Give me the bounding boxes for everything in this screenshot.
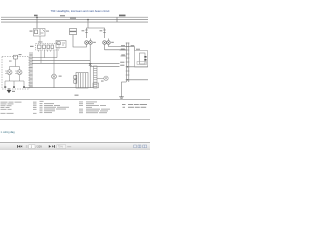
svg-text:/ 209: / 209	[36, 145, 42, 149]
svg-text:1. wiring diag: 1. wiring diag	[1, 131, 16, 134]
svg-text:75%: 75%	[58, 146, 64, 149]
svg-text:T90: Headlights, low beam and: T90: Headlights, low beam and main beam …	[51, 9, 110, 13]
